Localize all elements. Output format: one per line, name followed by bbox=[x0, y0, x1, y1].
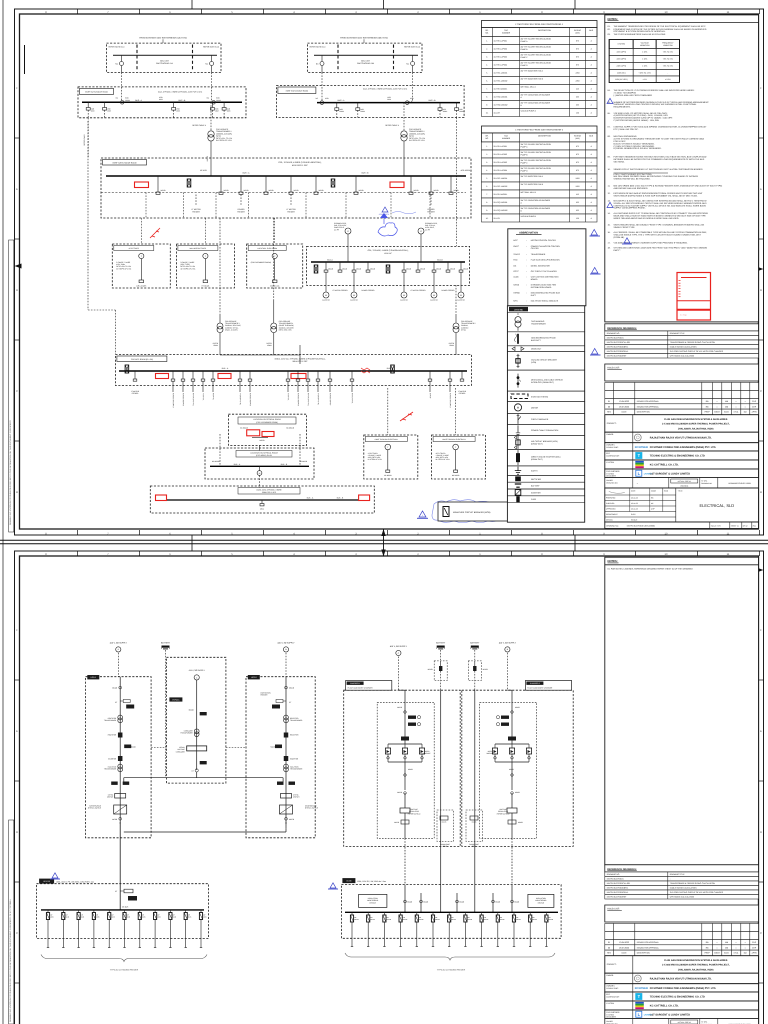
svg-text:F: F bbox=[16, 629, 18, 632]
svg-text:MCCB: MCCB bbox=[370, 267, 375, 270]
diode module bbox=[385, 748, 390, 754]
svg-text:T: T bbox=[205, 255, 207, 258]
svg-text:3W TYP. BOOSTER FAN B: 3W TYP. BOOSTER FAN B bbox=[521, 78, 544, 81]
page1 block row techno bbox=[605, 451, 759, 460]
svg-text:TECHNO ELECTRIC & ENGINEERING: TECHNO ELECTRIC & ENGINEERING CO. LTD bbox=[650, 996, 705, 999]
svg-text:BUS DUCT: BUS DUCT bbox=[531, 339, 542, 342]
svg-text:F: F bbox=[760, 629, 762, 632]
emergency bus feeder 4 bbox=[367, 262, 369, 270]
page 1 inner border bbox=[20, 14, 759, 529]
svg-text:RECTIFIER: RECTIFIER bbox=[108, 734, 117, 737]
MCC feeder 2 bbox=[172, 371, 174, 379]
svg-text:MCCB: MCCB bbox=[328, 267, 333, 270]
svg-text:± 10%: ± 10% bbox=[642, 51, 647, 54]
stab transformer bbox=[194, 729, 199, 734]
PCC feeder 3 bbox=[240, 176, 242, 192]
PCC main bus box bbox=[101, 158, 471, 218]
bus2 feeder 4 bbox=[456, 103, 458, 108]
charger-2 enclosure bbox=[462, 690, 573, 846]
emergency bus motor 5 bbox=[460, 272, 462, 292]
svg-text:NUMBER: NUMBER bbox=[502, 32, 511, 35]
svg-text:SHOWN. RATING WILL BE FINALISE: SHOWN. RATING WILL BE FINALISED. bbox=[614, 178, 651, 181]
emergency bus incomer ACB bbox=[314, 265, 318, 273]
diode module bbox=[526, 748, 531, 754]
svg-text:975: 975 bbox=[576, 47, 579, 50]
svg-text:FICHTNER: FICHTNER bbox=[635, 987, 648, 990]
svg-text:SYSTEM:: SYSTEM: bbox=[606, 461, 614, 464]
svg-text:UPS SIZING CALCULATION: UPS SIZING CALCULATION bbox=[670, 896, 695, 899]
PCC feeder 10 bbox=[450, 176, 452, 192]
emergency bus feeder 9 bbox=[460, 262, 462, 270]
svg-text:CABLE SIZING CALCULATION: CABLE SIZING CALCULATION bbox=[670, 346, 697, 349]
svg-text:10-HTQ-5AG002: 10-HTQ-5AG002 bbox=[494, 103, 508, 106]
maintenance bypass switch bbox=[280, 805, 293, 814]
svg-text:SCADA/ECS: SCADA/ECS bbox=[379, 213, 390, 216]
svg-text:03-04-23: 03-04-23 bbox=[631, 502, 638, 505]
svg-text:975: 975 bbox=[576, 153, 579, 156]
svg-text:20-LCR: 20-LCR bbox=[494, 217, 501, 220]
PCC feeder 8 bbox=[410, 176, 412, 192]
page2 left margin strip box bbox=[9, 820, 14, 1024]
svg-text:3W TYP. OXIDATION AIR BLOWER: 3W TYP. OXIDATION AIR BLOWER bbox=[521, 207, 551, 210]
svg-text:VOLTAGE: VOLTAGE bbox=[410, 808, 417, 811]
svg-text:RECTIFIER: RECTIFIER bbox=[290, 717, 299, 720]
svg-text:NC MCCB: NC MCCB bbox=[452, 474, 459, 477]
svg-text:DIESEL GENERATOR: DIESEL GENERATOR bbox=[531, 264, 551, 267]
incomer switchgear A feeder box bbox=[107, 36, 222, 72]
svg-text:± 1%: ± 1% bbox=[643, 78, 647, 81]
svg-text:DRAWING NO: KWTPL/ELC/FGD/ELE/: DRAWING NO: KWTPL/ELC/FGD/ELE/SLD/5001 R… bbox=[9, 898, 12, 1022]
415V bus section 1 bbox=[78, 87, 246, 118]
DCDB insulation monitoring device 2 bbox=[528, 894, 554, 907]
svg-text:3W TYP. OXIDATION AIR BLOWER: 3W TYP. OXIDATION AIR BLOWER bbox=[521, 94, 551, 97]
svg-text:DP: DP bbox=[111, 914, 113, 917]
svg-text:10-HTK-LAP002: 10-HTK-LAP002 bbox=[494, 47, 508, 50]
svg-text:E: E bbox=[16, 188, 18, 191]
svg-text:G: G bbox=[347, 230, 349, 233]
MCCB bbox=[285, 686, 288, 689]
svg-text:DP: DP bbox=[468, 916, 470, 919]
svg-text:VARIATION: VARIATION bbox=[640, 44, 650, 47]
red revision mark 1 bbox=[150, 228, 160, 238]
svg-text:BUS - B: BUS - B bbox=[429, 99, 437, 102]
svg-text:INVERTER: INVERTER bbox=[108, 758, 117, 761]
svg-text:MCCB: MCCB bbox=[112, 687, 118, 690]
svg-text:PUMP B: PUMP B bbox=[521, 48, 529, 51]
svg-text:GGL, 3 PHASE, 4 WIRE (3 PHASE+: GGL, 3 PHASE, 4 WIRE (3 PHASE+NEUTRAL), bbox=[278, 161, 322, 164]
electrical room red box 2 bbox=[262, 432, 274, 437]
PCC red feeder box right bbox=[390, 182, 404, 188]
notes panel border bbox=[605, 15, 759, 322]
svg-text:415V (3PH): 415V (3PH) bbox=[617, 58, 627, 61]
DCDB insulation monitoring device 1 bbox=[359, 894, 387, 907]
svg-text:425: 425 bbox=[576, 193, 579, 196]
svg-text:CIRCUIT BREAKER: CIRCUIT BREAKER bbox=[531, 418, 549, 421]
svg-text:3W TYP. OXIDATION AIR BLOWER: 3W TYP. OXIDATION AIR BLOWER bbox=[521, 199, 551, 202]
svg-text:D: D bbox=[760, 289, 762, 292]
SCADA interface cloud bbox=[378, 223, 397, 236]
fold arrow between pages bbox=[383, 529, 385, 557]
bus1 feeder 1 bbox=[87, 102, 89, 107]
svg-text:BUS-A: BUS-A bbox=[327, 259, 333, 262]
fold arrow page1 right mid bbox=[757, 267, 764, 272]
bus2 feeder 2 bbox=[357, 103, 359, 108]
PCC feeder 7 bbox=[355, 176, 357, 192]
svg-text:APPROVED:: APPROVED: bbox=[606, 508, 616, 511]
svg-text:NC MCCB: NC MCCB bbox=[212, 460, 219, 463]
svg-text:NO.: NO. bbox=[485, 32, 489, 35]
svg-text:SR.: SR. bbox=[485, 135, 489, 138]
inverter bbox=[284, 756, 289, 761]
svg-text:NC: NC bbox=[316, 63, 319, 66]
svg-text:10-LCR: 10-LCR bbox=[494, 111, 501, 114]
supply dashed wire bbox=[506, 653, 508, 690]
DCDB outgoing feeder 5 bbox=[416, 912, 418, 915]
svg-text:250: 250 bbox=[576, 111, 579, 114]
collect bus bbox=[495, 761, 529, 763]
bottom lighting distribution box bbox=[150, 486, 374, 513]
emergency bus feeder 8 bbox=[447, 262, 449, 270]
svg-text:UPS-2: UPS-2 bbox=[251, 676, 257, 679]
svg-text:M: M bbox=[460, 294, 462, 297]
svg-text:MCCB: MCCB bbox=[436, 267, 441, 270]
UPS DB outgoing feeder 2 bbox=[62, 910, 64, 913]
svg-text:DB BUS: DB BUS bbox=[122, 906, 129, 909]
svg-text:VCB: VCB bbox=[91, 108, 94, 111]
svg-text:DRAWING NO: KWTPL/ELC/FGD/ELE/: DRAWING NO: KWTPL/ELC/FGD/ELE/SLD/5001 R… bbox=[9, 419, 12, 525]
svg-text:SYSTEM: SYSTEM bbox=[618, 43, 626, 46]
svg-text:FEEDER: FEEDER bbox=[287, 210, 295, 213]
svg-text:SR.: SR. bbox=[485, 29, 489, 32]
svg-text:T: T bbox=[274, 255, 276, 258]
DCDB brace bbox=[345, 953, 555, 960]
svg-text:AGITATOR: AGITATOR bbox=[350, 299, 358, 302]
svg-text:220V (DC): 220V (DC) bbox=[617, 71, 626, 74]
svg-text:CIVIL: CIVIL bbox=[734, 952, 739, 955]
svg-text:ALTO TRAFO: ALTO TRAFO bbox=[368, 452, 379, 455]
svg-text:CIVIL: CIVIL bbox=[734, 411, 739, 414]
svg-text:DP: DP bbox=[387, 916, 389, 919]
svg-text:GGA, 3 PHASE, 3 WIRE (3 PHASE): GGA, 3 PHASE, 3 WIRE (3 PHASE), 415V FOR… bbox=[158, 91, 203, 94]
svg-text:INCOMER SHALL BE RATED FOR THE: INCOMER SHALL BE RATED FOR THE COMBINED … bbox=[614, 158, 705, 161]
MCC incomer ACB left bbox=[125, 365, 129, 373]
svg-text:DP: DP bbox=[500, 916, 502, 919]
svg-text:BOARD: BOARD bbox=[531, 278, 538, 281]
svg-text:DP: DP bbox=[157, 914, 159, 917]
PCC compartment wall bbox=[345, 193, 347, 218]
svg-text:ACB: ACB bbox=[325, 97, 329, 100]
svg-text:ACB 1000A: ACB 1000A bbox=[461, 169, 471, 172]
legend row busduct bbox=[507, 332, 584, 346]
PCC compartment wall bbox=[429, 193, 431, 218]
svg-text:REFER TABLE 4: REFER TABLE 4 bbox=[385, 124, 399, 127]
UPS-2 enclosure bbox=[246, 677, 315, 838]
svg-text:THE AMBIENT TEMPERATURE FOR DE: THE AMBIENT TEMPERATURE FOR DESIGN OF TH… bbox=[614, 25, 707, 28]
UPS outputs to DB bbox=[119, 822, 121, 884]
svg-text:+3% TO -5%: +3% TO -5% bbox=[663, 51, 674, 54]
svg-text:BUS - A: BUS - A bbox=[338, 99, 345, 102]
MCC feeder 15 bbox=[429, 371, 431, 379]
svg-text:ACB: ACB bbox=[459, 108, 462, 111]
blue triangle note marker a bbox=[622, 238, 632, 244]
svg-text:DEPARTMENT:: DEPARTMENT: bbox=[606, 513, 618, 516]
svg-text:WET BALL MILL B: WET BALL MILL B bbox=[521, 191, 537, 194]
UPS DB outgoing feeder 7 bbox=[139, 910, 141, 913]
svg-text:FEEDER: FEEDER bbox=[427, 210, 435, 213]
svg-text:BUS - B: BUS - B bbox=[281, 463, 288, 466]
svg-text:SHALL BE SINGLE TYPE, THE 1 TY: SHALL BE SINGLE TYPE, THE 1 TYPE WITH CA… bbox=[614, 233, 702, 236]
svg-text:MCCB: MCCB bbox=[342, 267, 347, 270]
blue triangle note marker b bbox=[607, 98, 613, 103]
diode module bbox=[419, 748, 424, 754]
page2 owner drawing no row bbox=[605, 1019, 759, 1024]
svg-text:MCCB: MCCB bbox=[161, 189, 167, 192]
svg-text:MAINTENANCE: MAINTENANCE bbox=[89, 805, 101, 808]
svg-text:MCCB: MCCB bbox=[420, 267, 425, 270]
svg-text:CT: CT bbox=[115, 701, 117, 704]
riser to bottom right boxes bbox=[387, 388, 389, 435]
svg-text:FGD: FGD bbox=[513, 259, 518, 262]
svg-text:BATTERY: BATTERY bbox=[470, 641, 480, 644]
svg-text:20-HTK-LAP001: 20-HTK-LAP001 bbox=[494, 145, 508, 148]
svg-text:07.: 07. bbox=[608, 126, 611, 129]
svg-text:FICHTNER CONSULTING ENGINEERS: FICHTNER CONSULTING ENGINEERS (INDIA) PV… bbox=[650, 446, 717, 449]
svg-text:ETC.) SHALL BE 220V DC.: ETC.) SHALL BE 220V DC. bbox=[614, 128, 639, 131]
svg-text:BUS - B: BUS - B bbox=[362, 172, 370, 175]
MCC feeder 5 bbox=[202, 371, 204, 379]
svg-text:DRAW OUT: DRAW OUT bbox=[531, 348, 542, 351]
svg-text:M: M bbox=[353, 294, 355, 297]
svg-text:TRANSFORMER & FEEDER SIZING CA: TRANSFORMER & FEEDER SIZING CALCULATION bbox=[670, 882, 716, 885]
svg-text:DP: DP bbox=[370, 916, 372, 919]
svg-text:MCC: MCC bbox=[260, 508, 265, 511]
svg-text:IN STEPS OF 2.5%: IN STEPS OF 2.5% bbox=[180, 267, 195, 270]
svg-text:DP: DP bbox=[50, 914, 52, 917]
svg-text:POWER FEEDER: POWER FEEDER bbox=[249, 392, 252, 406]
page1 left margin strip box bbox=[9, 240, 14, 532]
svg-text:BATTERY: BATTERY bbox=[161, 641, 171, 644]
svg-text:TO ACDB: TO ACDB bbox=[212, 393, 215, 400]
PCC feeder 1 bbox=[157, 176, 159, 192]
blue triangle marker p1 bbox=[419, 511, 426, 517]
svg-text:B: B bbox=[285, 648, 287, 651]
svg-text:355: 355 bbox=[576, 209, 579, 212]
svg-text:BUS-B: BUS-B bbox=[437, 259, 443, 262]
svg-text:415 V, 3Ø SUPPLY: 415 V, 3Ø SUPPLY bbox=[499, 641, 517, 644]
PCC feeder 2 bbox=[220, 176, 222, 192]
connection trafos to MCC bus bbox=[220, 354, 300, 356]
isolation transformer bbox=[284, 764, 289, 769]
svg-text:13-04-2023: 13-04-2023 bbox=[619, 941, 629, 944]
page separator line 2 bbox=[0, 543, 768, 545]
svg-text:TITLE:: TITLE: bbox=[678, 490, 684, 493]
svg-text:B: B bbox=[16, 491, 18, 494]
PCC compartment wall bbox=[305, 193, 307, 218]
svg-text:MECH: MECH bbox=[714, 411, 720, 414]
svg-text:(kW): (kW) bbox=[576, 137, 580, 140]
svg-text:TAG: TAG bbox=[504, 135, 508, 138]
MCC red mark small bbox=[361, 368, 370, 373]
bus1 feeder 5 bbox=[223, 102, 225, 107]
svg-text:MCCB: MCCB bbox=[397, 706, 402, 709]
svg-text:SWITCHGEAR #1A: SWITCHGEAR #1A bbox=[156, 62, 173, 65]
svg-text:ISOLATION: ISOLATION bbox=[108, 766, 117, 769]
page2 block row rrvunl bbox=[605, 973, 759, 984]
svg-text:DESCRIPTION: DESCRIPTION bbox=[637, 411, 651, 414]
svg-text:2350: 2350 bbox=[576, 71, 580, 74]
legend row exist bbox=[507, 391, 584, 401]
rectifier transformer bbox=[284, 715, 289, 720]
svg-text:VOLTAGE: VOLTAGE bbox=[499, 808, 506, 811]
svg-text:PMCC: PMCC bbox=[513, 245, 519, 248]
svg-text:DEVICE: DEVICE bbox=[538, 901, 545, 904]
svg-text:975: 975 bbox=[576, 161, 579, 164]
emergency bus motor 1 bbox=[325, 272, 327, 292]
svg-text:WET BALL MILL A: WET BALL MILL A bbox=[521, 86, 537, 89]
svg-text:50KA FOR 1 SEC: 50KA FOR 1 SEC bbox=[292, 360, 308, 363]
svg-text:KWTPL/ELC/FGD/REF: KWTPL/ELC/FGD/REF bbox=[607, 355, 627, 358]
svg-text:BATTERY: BATTERY bbox=[436, 641, 446, 644]
svg-text:RAJASTHAN RAJYA VIDYUT UTPADAN: RAJASTHAN RAJYA VIDYUT UTPADAN NIGAM LTD… bbox=[650, 978, 712, 981]
svg-text:LT MOTOR FEEDER: LT MOTOR FEEDER bbox=[333, 289, 349, 292]
emergency bus feeder 3 bbox=[353, 262, 355, 270]
svg-text:FROM EXISTING 415V SWITCHGEAR: FROM EXISTING 415V SWITCHGEAR #1A (+0 M) bbox=[139, 36, 187, 39]
svg-text:T: T bbox=[387, 446, 389, 449]
svg-text:10-HTK-5AG001: 10-HTK-5AG001 bbox=[494, 87, 508, 90]
legend row motor bbox=[507, 401, 584, 413]
svg-text:ISSUED FOR APPROVAL: ISSUED FOR APPROVAL bbox=[637, 405, 659, 408]
svg-text:MCCB: MCCB bbox=[442, 821, 446, 824]
svg-text:MULTIFUNCTIONAL MODULES: MULTIFUNCTIONAL MODULES bbox=[531, 300, 559, 303]
svg-text:NC MCCB: NC MCCB bbox=[240, 427, 249, 430]
svg-text:(FORM 4B).: (FORM 4B). bbox=[614, 236, 625, 239]
riser into bottom strip bbox=[259, 476, 261, 488]
svg-text:PUMP C: PUMP C bbox=[521, 56, 529, 59]
svg-text:DRAWING TITLE: DRAWING TITLE bbox=[670, 873, 685, 876]
svg-text:HOLD LIST:: HOLD LIST: bbox=[607, 908, 620, 911]
MCCB out bbox=[119, 817, 122, 820]
svg-text:E: E bbox=[16, 730, 18, 733]
svg-text:2 X 660 MW KALISINDH SUPER THE: 2 X 660 MW KALISINDH SUPER THERMAL POWER… bbox=[662, 423, 730, 426]
svg-text:01.: 01. bbox=[608, 25, 611, 28]
page2 notes panel bbox=[605, 557, 759, 865]
bypass MCB bbox=[200, 761, 207, 764]
svg-text:ACTUAL SIZE A1: ACTUAL SIZE A1 bbox=[678, 480, 691, 483]
svg-text:DP: DP bbox=[173, 914, 175, 917]
diode module bbox=[492, 748, 497, 754]
svg-text:LOCATION: ELECTRICAL ROOM: LOCATION: ELECTRICAL ROOM bbox=[253, 418, 281, 421]
svg-text:MCCB: MCCB bbox=[518, 821, 523, 824]
svg-text:10-HTK-LAP003: 10-HTK-LAP003 bbox=[494, 55, 508, 58]
MCC feeder 4 bbox=[192, 371, 194, 379]
svg-text:MCCB: MCCB bbox=[454, 189, 460, 192]
bus2 feeder 3 bbox=[439, 103, 441, 108]
svg-text:MCCB: MCCB bbox=[289, 687, 295, 690]
svg-text:KWTPL/ELC/FGD/GEN-1: KWTPL/ELC/FGD/GEN-1 bbox=[607, 350, 629, 353]
svg-text:M: M bbox=[517, 407, 519, 410]
UPS DB outgoing feeder 4 bbox=[93, 910, 95, 913]
legend row batt bbox=[507, 482, 584, 489]
svg-text:FLOAT CUM BOOST CHARGER: FLOAT CUM BOOST CHARGER bbox=[348, 687, 374, 690]
page1 title block: reference drawings bbox=[605, 324, 759, 331]
MCC feeder 12 bbox=[317, 371, 319, 379]
PCC compartment wall bbox=[248, 193, 250, 218]
svg-text:PUMP A: PUMP A bbox=[521, 40, 529, 43]
svg-text:355: 355 bbox=[576, 201, 579, 204]
svg-text:VACUUM PUMP B: VACUUM PUMP B bbox=[521, 215, 537, 218]
svg-text:160A: 160A bbox=[387, 98, 392, 101]
svg-text:03.: 03. bbox=[608, 33, 611, 36]
legend row dol bbox=[507, 449, 584, 466]
svg-text:00: 00 bbox=[608, 405, 610, 408]
blue triangle marker p2a bbox=[50, 873, 60, 879]
legend row inv bbox=[507, 489, 584, 496]
svg-text:MCC: MCC bbox=[513, 239, 518, 242]
bus1 feeder 3 bbox=[173, 102, 175, 107]
svg-text:ABBREVIATION: ABBREVIATION bbox=[519, 232, 538, 235]
bypass feed connector left bbox=[151, 747, 166, 749]
svg-text:17.: 17. bbox=[608, 242, 611, 245]
kWh meter bbox=[508, 737, 516, 741]
svg-text:REFER NOTE B-13: REFER NOTE B-13 bbox=[203, 45, 219, 48]
svg-text:IN STEPS OF 2.5%: IN STEPS OF 2.5% bbox=[216, 139, 232, 142]
fold marks bbox=[191, 0, 193, 9]
page2 block row lnt bbox=[605, 1010, 759, 1019]
page2 revision table bbox=[605, 924, 614, 932]
svg-text:240V (1PH): 240V (1PH) bbox=[617, 65, 627, 68]
UPS DB outgoing feeder 8 bbox=[154, 910, 156, 913]
emergency bus motor 4 bbox=[433, 272, 435, 292]
svg-text:UPS-1: UPS-1 bbox=[91, 676, 97, 679]
LT motors table 1 bbox=[482, 21, 598, 28]
svg-text:MCCB: MCCB bbox=[244, 189, 250, 192]
svg-text:2350: 2350 bbox=[576, 177, 580, 180]
UPS DB brace bbox=[41, 955, 207, 962]
svg-text:DOCUMENT & SYSTEM DESIGN DATA: DOCUMENT & SYSTEM DESIGN DATA OF APPROVA… bbox=[614, 30, 666, 33]
svg-text:ACB: ACB bbox=[339, 108, 342, 111]
svg-text:2 X 660 MW KALISINDH SUPER THE: 2 X 660 MW KALISINDH SUPER THERMAL POWER… bbox=[662, 964, 730, 967]
page2 title block: reference drawings bbox=[605, 865, 759, 872]
svg-text:MCCB: MCCB bbox=[514, 900, 519, 903]
svg-text:MCCB: MCCB bbox=[407, 900, 412, 903]
MCC main bus box bbox=[115, 355, 471, 386]
svg-text:3W TYP. BOOSTER FAN A: 3W TYP. BOOSTER FAN A bbox=[521, 70, 544, 73]
svg-text:SLD FOR EXISTING CIRCUIT OF 41: SLD FOR EXISTING CIRCUIT OF 415 V/FGD FO… bbox=[670, 350, 724, 353]
svg-text:BUS - B: BUS - B bbox=[178, 99, 186, 102]
left boundary dashed riser bbox=[87, 121, 89, 310]
svg-text:SERVO: SERVO bbox=[179, 746, 185, 749]
emergency bus motor 2 bbox=[353, 272, 355, 292]
UPS DB CT meter bbox=[119, 884, 121, 910]
UPS-1 enclosure bbox=[86, 677, 152, 838]
svg-text:AND RATING SHALL BE PROVIDED.: AND RATING SHALL BE PROVIDED. bbox=[614, 187, 649, 190]
svg-text:ISSUED FOR APPROVAL: ISSUED FOR APPROVAL bbox=[637, 400, 659, 403]
svg-text:13.: 13. bbox=[608, 200, 611, 203]
svg-text:PREP: PREP bbox=[704, 952, 710, 955]
rectifier bbox=[284, 733, 289, 738]
svg-text:F: F bbox=[16, 87, 18, 90]
bus1 feeder 2 bbox=[104, 102, 106, 107]
DCDB outgoing feeder 13 bbox=[545, 912, 547, 915]
incomer switchgear B feeder box bbox=[308, 36, 423, 72]
svg-text:14.: 14. bbox=[608, 212, 611, 215]
svg-text:MCCB: MCCB bbox=[406, 267, 411, 270]
svg-text:NC: NC bbox=[406, 63, 409, 66]
MCB pair bbox=[277, 782, 284, 785]
svg-text:DP: DP bbox=[549, 916, 551, 919]
svg-text:DESCRIPTION: DESCRIPTION bbox=[538, 29, 552, 32]
battery wires down bbox=[440, 690, 442, 885]
